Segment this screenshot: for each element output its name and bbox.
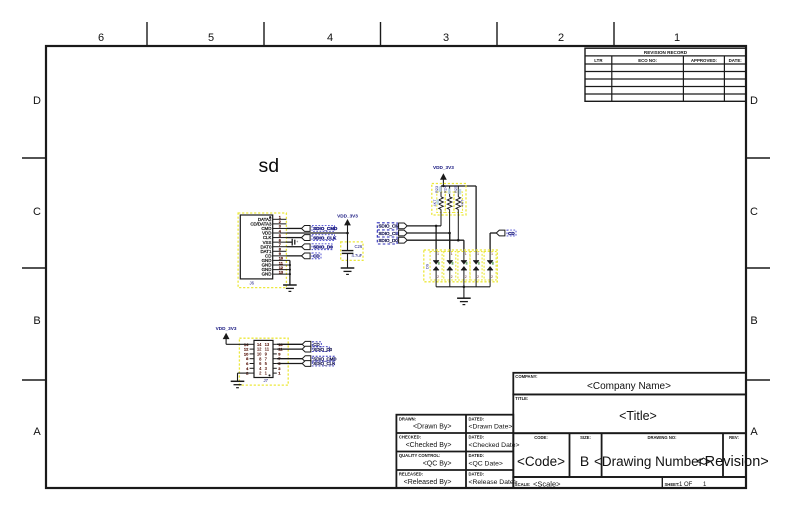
svg-text:<Revision>: <Revision> (696, 454, 769, 470)
svg-text:R24: R24 (443, 185, 448, 193)
svg-text:C: C (33, 206, 41, 218)
svg-text:<Scale>: <Scale> (533, 479, 561, 488)
svg-text:<QC Date>: <QC Date> (469, 460, 503, 467)
svg-text:QUALITY CONTROL:: QUALITY CONTROL: (399, 453, 441, 458)
svg-text:VDD_3V3: VDD_3V3 (337, 214, 358, 219)
svg-text:<Release Date>: <Release Date> (469, 479, 518, 486)
svg-text:2: 2 (451, 275, 453, 279)
svg-text:<Drawn Date>: <Drawn Date> (469, 424, 513, 431)
svg-text:APPROVED:: APPROVED: (691, 58, 718, 63)
svg-text:4.7uF: 4.7uF (352, 253, 363, 258)
svg-text:DATED:: DATED: (469, 472, 485, 477)
svg-text:C: C (750, 206, 758, 218)
svg-text:A: A (750, 426, 758, 438)
svg-text:2: 2 (491, 275, 493, 279)
svg-text:1: 1 (477, 252, 479, 256)
svg-text:1: 1 (674, 32, 680, 44)
svg-text:3: 3 (443, 32, 449, 44)
svg-text:+: + (296, 240, 298, 244)
svg-text:ECO NO:: ECO NO: (638, 58, 657, 63)
svg-text:DATE:: DATE: (729, 58, 743, 63)
svg-text:<Title>: <Title> (619, 409, 657, 423)
svg-text:1 OF: 1 OF (679, 482, 693, 488)
svg-text:<Released By>: <Released By> (404, 479, 452, 486)
svg-text:B: B (580, 453, 589, 469)
svg-text:DRAWING NO:: DRAWING NO: (647, 435, 676, 440)
svg-text:SDIO_CLK: SDIO_CLK (379, 231, 401, 236)
svg-text:5: 5 (279, 234, 281, 238)
svg-text:6: 6 (98, 32, 104, 44)
svg-text:2: 2 (465, 275, 467, 279)
svg-text:R25: R25 (453, 186, 458, 193)
svg-text:3: 3 (279, 225, 281, 229)
svg-text:R23: R23 (434, 186, 439, 193)
svg-text:2: 2 (437, 275, 439, 279)
svg-text:VDD_3V3: VDD_3V3 (216, 326, 237, 331)
svg-text:J7: J7 (264, 378, 269, 383)
svg-text:13: 13 (279, 270, 283, 274)
svg-text:DATED:: DATED: (469, 453, 485, 458)
svg-text:SDIO_CMD: SDIO_CMD (313, 226, 338, 231)
svg-text:DATED:: DATED: (469, 416, 485, 421)
svg-text:10: 10 (279, 257, 283, 261)
svg-text:1: 1 (437, 252, 439, 256)
svg-text:9: 9 (279, 252, 281, 256)
svg-text:J6: J6 (250, 281, 255, 286)
svg-text:6: 6 (279, 238, 281, 242)
svg-text:DRAWN:: DRAWN: (399, 416, 416, 421)
svg-text:GND: GND (262, 272, 272, 277)
svg-text:11: 11 (279, 261, 283, 265)
svg-text:VDD_3V3: VDD_3V3 (433, 165, 454, 170)
svg-text:REV:: REV: (729, 435, 739, 440)
svg-text:2: 2 (477, 275, 479, 279)
svg-text:SDIO_D0: SDIO_D0 (313, 347, 332, 352)
svg-text:B: B (750, 315, 757, 327)
svg-text:8: 8 (279, 248, 281, 252)
svg-text:D9: D9 (425, 263, 430, 269)
svg-text:TITLE:: TITLE: (515, 396, 528, 401)
svg-text:C26: C26 (355, 244, 363, 249)
svg-text:REVISION RECORD: REVISION RECORD (644, 50, 688, 55)
svg-text:SDIO_D0: SDIO_D0 (313, 245, 333, 250)
svg-text:SDIO_D0: SDIO_D0 (379, 238, 399, 243)
svg-text:B: B (33, 315, 40, 327)
svg-text:CODE:: CODE: (534, 435, 548, 440)
svg-text:CD: CD (508, 231, 515, 236)
svg-text:7: 7 (279, 243, 281, 247)
svg-text:D: D (33, 95, 41, 107)
svg-text:COMPANY:: COMPANY: (515, 374, 537, 379)
svg-text:5: 5 (208, 32, 214, 44)
svg-text:12: 12 (279, 266, 283, 270)
svg-text:D: D (750, 95, 758, 107)
svg-text:SIZE:: SIZE: (580, 435, 591, 440)
svg-text:1: 1 (451, 252, 453, 256)
svg-text:1: 1 (279, 216, 281, 220)
svg-text:4K7: 4K7 (460, 200, 465, 207)
svg-text:1: 1 (465, 252, 467, 256)
svg-text:2: 2 (558, 32, 564, 44)
svg-text:<Checked Date>: <Checked Date> (469, 442, 520, 449)
svg-text:CHECKED:: CHECKED: (399, 435, 421, 440)
svg-text:RELEASED:: RELEASED: (399, 472, 423, 477)
svg-text:1: 1 (491, 252, 493, 256)
svg-text:LTR: LTR (594, 58, 603, 63)
svg-text:4: 4 (327, 32, 333, 44)
svg-text:<Company Name>: <Company Name> (587, 381, 671, 392)
svg-text:SDIO_CLK: SDIO_CLK (313, 235, 337, 240)
svg-text:DATED:: DATED: (469, 435, 485, 440)
svg-text:SHEET:: SHEET: (665, 482, 680, 487)
svg-text:A: A (33, 426, 41, 438)
svg-text:sd: sd (259, 155, 280, 177)
svg-text:<Code>: <Code> (517, 454, 565, 469)
svg-text:<Checked By>: <Checked By> (406, 442, 452, 449)
svg-text:<Drawn By>: <Drawn By> (413, 424, 452, 431)
svg-text:<QC By>: <QC By> (423, 460, 452, 467)
svg-text:2: 2 (279, 220, 281, 224)
svg-text:CD: CD (313, 254, 320, 259)
svg-text:4K7: 4K7 (432, 200, 437, 207)
svg-text:<Drawing Number>: <Drawing Number> (594, 454, 711, 469)
svg-text:SDIO_CLK: SDIO_CLK (313, 361, 335, 366)
